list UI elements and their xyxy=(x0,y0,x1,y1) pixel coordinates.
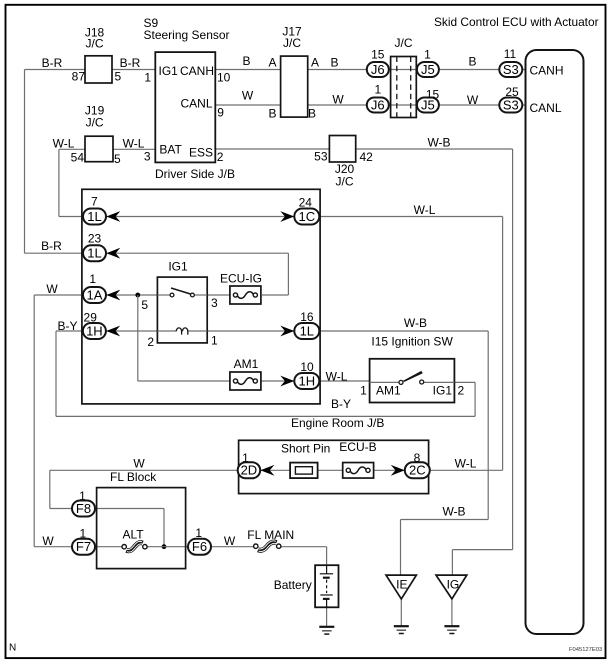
svg-text:1H: 1H xyxy=(86,323,103,338)
svg-text:IG: IG xyxy=(447,578,460,592)
svg-text:1: 1 xyxy=(195,526,202,540)
short pin and ECU-B block xyxy=(239,440,429,493)
arrow at 2C pin 8 xyxy=(391,465,405,476)
svg-text:1: 1 xyxy=(211,334,218,348)
FL block box xyxy=(97,470,186,569)
svg-text:F045127E03: F045127E03 xyxy=(569,647,602,653)
wire battery negative to ground xyxy=(326,600,328,627)
wire W from FL block F7 up to 1A pin 1 and to IG1 relay pin 5 xyxy=(34,295,157,547)
svg-text:Battery: Battery xyxy=(274,578,312,592)
fusible link ALT xyxy=(122,528,147,553)
svg-text:1A: 1A xyxy=(87,287,103,302)
svg-text:J/C: J/C xyxy=(86,37,104,51)
wire CANH: steering sensor pin 10 - A - J17 - J6 - J5 - B - S3 pin 11 xyxy=(215,69,525,71)
svg-text:IG1: IG1 xyxy=(159,64,179,78)
wire W-L row 1L pin 7 to 1C pin 24 and down to 2C pin 8 xyxy=(83,217,503,471)
striped junction connector between J6 and J5 xyxy=(391,36,417,118)
svg-text:J6: J6 xyxy=(371,62,385,77)
svg-text:Driver Side J/B: Driver Side J/B xyxy=(155,167,235,181)
svg-text:A: A xyxy=(268,56,276,70)
svg-text:F6: F6 xyxy=(192,539,207,554)
junction J5 pin 1 (CANH) xyxy=(417,47,439,77)
svg-text:CANL: CANL xyxy=(530,101,562,115)
svg-text:W-L: W-L xyxy=(123,137,145,151)
svg-text:J/C: J/C xyxy=(86,116,104,130)
wire CANL: steering sensor pin 9 - B - J17 - J6 - J5 - W - S3 pin 25 xyxy=(215,104,525,106)
arrow at 1L pin 23 xyxy=(106,248,120,259)
svg-text:W: W xyxy=(46,282,58,296)
svg-text:N: N xyxy=(9,643,16,654)
wire inside short pin / ECU-B block to 2C pin 8 xyxy=(239,469,406,471)
wire IE triangle to ground xyxy=(400,599,402,626)
junction J5 pin 15 (CANL) xyxy=(417,88,440,113)
svg-text:1H: 1H xyxy=(298,373,315,388)
fusible link FL MAIN xyxy=(247,528,294,552)
svg-text:W: W xyxy=(242,89,254,103)
ignition switch I15 xyxy=(370,335,455,403)
svg-text:B-R: B-R xyxy=(42,56,63,70)
svg-text:FL Block: FL Block xyxy=(110,470,157,484)
svg-text:B-Y: B-Y xyxy=(57,319,77,333)
svg-text:25: 25 xyxy=(505,85,519,99)
svg-text:W-L: W-L xyxy=(53,137,75,151)
svg-text:W: W xyxy=(467,93,479,107)
fuse ECU-B xyxy=(339,440,376,478)
wire W-B from steering sensor ESS pin 2 through J20 down to IG triangle xyxy=(215,149,512,575)
connector 2C pin 8 xyxy=(405,451,430,478)
svg-text:42: 42 xyxy=(360,150,374,164)
svg-text:IG1: IG1 xyxy=(168,260,188,274)
wire W-L from AM1 fuse through 1H pin 10 to ignition switch AM1 pin 1 xyxy=(261,380,370,382)
connector 1A pin 1 xyxy=(83,272,106,303)
svg-text:J5: J5 xyxy=(421,62,435,77)
svg-text:J/C: J/C xyxy=(336,175,354,189)
svg-text:15: 15 xyxy=(426,88,440,102)
svg-text:W-L: W-L xyxy=(326,370,348,384)
svg-text:B: B xyxy=(330,56,338,70)
svg-text:IE: IE xyxy=(396,578,407,592)
arrow at 1C pin 24 xyxy=(280,211,294,222)
wire B-R from 1L pin 23 to ECU-IG fuse xyxy=(83,253,288,295)
svg-text:W-L: W-L xyxy=(455,457,477,471)
svg-text:B-Y: B-Y xyxy=(331,397,351,411)
svg-text:1: 1 xyxy=(424,47,431,61)
svg-text:2: 2 xyxy=(147,335,154,349)
short pin component xyxy=(281,442,330,479)
svg-text:B: B xyxy=(308,107,316,121)
ground node IG xyxy=(436,575,467,599)
fuse ECU-IG xyxy=(220,272,262,305)
junction dot at 1A / relay / AM1 branch xyxy=(135,293,140,298)
svg-text:F8: F8 xyxy=(76,501,91,516)
ground node IE xyxy=(386,575,416,599)
svg-text:1: 1 xyxy=(79,527,86,541)
wire W-L from J19 pin 54 down to 1L pin 7 xyxy=(59,149,85,216)
svg-text:54: 54 xyxy=(71,151,85,165)
wire B-Y from 1H pin 29 to ignition switch IG1 pin 2 xyxy=(56,331,475,416)
fusible link F6 pin 1 xyxy=(188,526,211,555)
svg-text:ALT: ALT xyxy=(122,528,144,542)
arrow at 1H pin 10 xyxy=(280,376,294,387)
svg-text:J6: J6 xyxy=(371,97,385,112)
connector 2D pin 1 xyxy=(238,451,261,478)
svg-text:29: 29 xyxy=(84,311,98,325)
wire W-B from relay coil pin 1 through 1L pin 16 down to IE triangle xyxy=(207,331,488,575)
svg-text:CANL: CANL xyxy=(180,97,212,111)
svg-text:B: B xyxy=(268,107,276,121)
arrow at 1H pin 29 xyxy=(106,326,120,337)
connector S3 pin 11 (CANH) xyxy=(499,47,522,77)
svg-text:8: 8 xyxy=(414,451,421,465)
svg-text:1: 1 xyxy=(242,451,249,465)
wire B-R from J18 pin 5 to steering sensor IG1 pin 1 xyxy=(112,69,155,71)
fuse AM1 xyxy=(230,357,261,390)
svg-text:J/C: J/C xyxy=(283,36,301,50)
svg-text:W: W xyxy=(332,93,344,107)
svg-text:W-L: W-L xyxy=(414,203,436,217)
svg-text:24: 24 xyxy=(299,196,313,210)
svg-text:S3: S3 xyxy=(503,62,519,77)
arrow at 1L pin 16 xyxy=(280,326,294,337)
wire IG1 relay pin 3 to ECU-IG fuse xyxy=(207,294,230,296)
junction J6 pin 15 (CANH) xyxy=(367,48,389,78)
wire B-R from J18 pin 87 down-left to 1L pin 23 xyxy=(25,70,86,254)
junction dot ALT output xyxy=(162,544,167,549)
svg-text:3: 3 xyxy=(144,150,151,164)
connector S3 pin 25 (CANL) xyxy=(499,85,522,113)
svg-text:ECU-IG: ECU-IG xyxy=(220,272,262,286)
svg-text:2: 2 xyxy=(217,150,224,164)
arrow at 2D pin 1 xyxy=(260,465,274,476)
junction connector J18 xyxy=(72,26,122,84)
svg-text:ESS: ESS xyxy=(189,145,213,159)
ground below IG xyxy=(444,625,459,627)
wire from F8 to ALT junction xyxy=(95,509,164,547)
wire W-L from J19 pin 5 to steering sensor BAT pin 3 xyxy=(113,148,155,150)
svg-text:AM1: AM1 xyxy=(376,384,401,398)
svg-text:Short Pin: Short Pin xyxy=(281,442,330,456)
wire relay coil pin 2 to 1H pin 29 (inside J/B) xyxy=(104,330,157,332)
battery xyxy=(274,565,339,607)
svg-text:5: 5 xyxy=(115,70,122,84)
svg-text:15: 15 xyxy=(371,48,385,62)
arrow at 1L pin 7 xyxy=(106,211,120,222)
svg-text:AM1: AM1 xyxy=(234,357,259,371)
wire from junction down to AM1 fuse xyxy=(138,295,230,381)
svg-text:B-R: B-R xyxy=(41,239,62,253)
svg-text:W-B: W-B xyxy=(442,505,465,519)
svg-text:1: 1 xyxy=(144,70,151,84)
svg-text:16: 16 xyxy=(300,310,314,324)
connector 1H pin 29 xyxy=(83,311,106,339)
svg-text:1: 1 xyxy=(374,82,381,96)
wire IG triangle to ground xyxy=(451,599,453,626)
svg-text:1: 1 xyxy=(79,489,86,503)
connector 1C pin 24 xyxy=(294,196,319,225)
svg-text:B: B xyxy=(242,54,250,68)
wire F7 through ALT fusible link to F6 xyxy=(95,546,256,548)
junction connector J19 xyxy=(71,104,121,167)
svg-text:Steering Sensor: Steering Sensor xyxy=(144,28,230,42)
svg-text:1L: 1L xyxy=(300,323,314,338)
wire W from 2D pin 1 down to FL block F8 xyxy=(50,470,239,508)
svg-text:9: 9 xyxy=(217,106,224,120)
svg-text:IG1: IG1 xyxy=(433,384,453,398)
connector 1L pin 16 xyxy=(294,310,319,339)
svg-text:I15 Ignition SW: I15 Ignition SW xyxy=(371,335,453,349)
svg-text:J/C: J/C xyxy=(395,36,413,50)
svg-text:1: 1 xyxy=(89,272,96,286)
arrow at 1A pin 1 xyxy=(106,290,120,301)
svg-text:FL MAIN: FL MAIN xyxy=(247,528,294,542)
Engine Room J/B box xyxy=(82,189,384,430)
svg-text:B: B xyxy=(468,55,476,69)
svg-text:CANH: CANH xyxy=(530,64,564,78)
svg-text:3: 3 xyxy=(211,296,218,310)
svg-text:53: 53 xyxy=(314,150,328,164)
svg-text:1: 1 xyxy=(360,384,367,398)
svg-text:S3: S3 xyxy=(503,97,519,112)
svg-text:Skid Control ECU with Actuator: Skid Control ECU with Actuator xyxy=(434,15,599,29)
connector 1H pin 10 xyxy=(294,360,319,389)
svg-text:W: W xyxy=(42,534,54,548)
svg-text:5: 5 xyxy=(114,152,121,166)
ignition relay IG1 xyxy=(157,260,207,343)
wire W from F6 through FL MAIN to battery xyxy=(281,547,327,574)
svg-text:7: 7 xyxy=(91,195,98,209)
svg-text:1C: 1C xyxy=(298,209,315,224)
junction connector J17 xyxy=(281,25,308,118)
svg-text:W-B: W-B xyxy=(427,136,450,150)
svg-text:11: 11 xyxy=(504,47,517,61)
svg-text:2: 2 xyxy=(458,384,465,398)
svg-text:W: W xyxy=(133,457,145,471)
svg-text:BAT: BAT xyxy=(159,143,182,157)
svg-text:87: 87 xyxy=(72,70,86,84)
skid control ECU with actuator box xyxy=(434,15,599,634)
svg-text:23: 23 xyxy=(88,232,102,246)
ground below IE xyxy=(394,625,409,627)
svg-text:A: A xyxy=(311,56,319,70)
ground below battery xyxy=(319,626,334,628)
svg-text:ECU-B: ECU-B xyxy=(339,440,376,454)
svg-text:CANH: CANH xyxy=(180,64,214,78)
svg-text:10: 10 xyxy=(217,71,231,85)
svg-text:5: 5 xyxy=(141,298,148,312)
svg-text:1L: 1L xyxy=(87,246,101,261)
connector 1L pin 7 xyxy=(83,195,106,225)
svg-text:F7: F7 xyxy=(76,539,91,554)
steering sensor S9 box xyxy=(144,16,236,181)
fusible link F7 pin 1 xyxy=(72,527,95,555)
svg-text:10: 10 xyxy=(300,360,314,374)
svg-text:Engine Room J/B: Engine Room J/B xyxy=(291,416,384,430)
fusible link F8 pin 1 xyxy=(72,489,95,517)
junction J6 pin 1 (CANL) xyxy=(367,82,389,112)
junction connector J20 xyxy=(314,136,373,189)
svg-text:W-B: W-B xyxy=(404,316,427,330)
connector 1L pin 23 xyxy=(83,232,106,262)
svg-text:1L: 1L xyxy=(87,209,101,224)
svg-text:W: W xyxy=(224,534,236,548)
svg-text:B-R: B-R xyxy=(120,56,141,70)
